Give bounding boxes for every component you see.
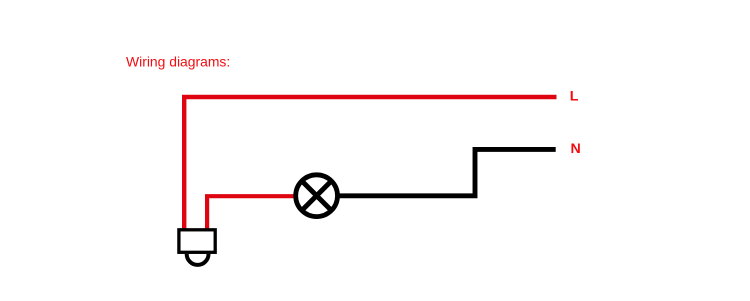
- svg-text:Wiring diagrams:: Wiring diagrams:: [126, 54, 230, 70]
- svg-text:L: L: [570, 88, 579, 104]
- svg-text:N: N: [571, 141, 581, 157]
